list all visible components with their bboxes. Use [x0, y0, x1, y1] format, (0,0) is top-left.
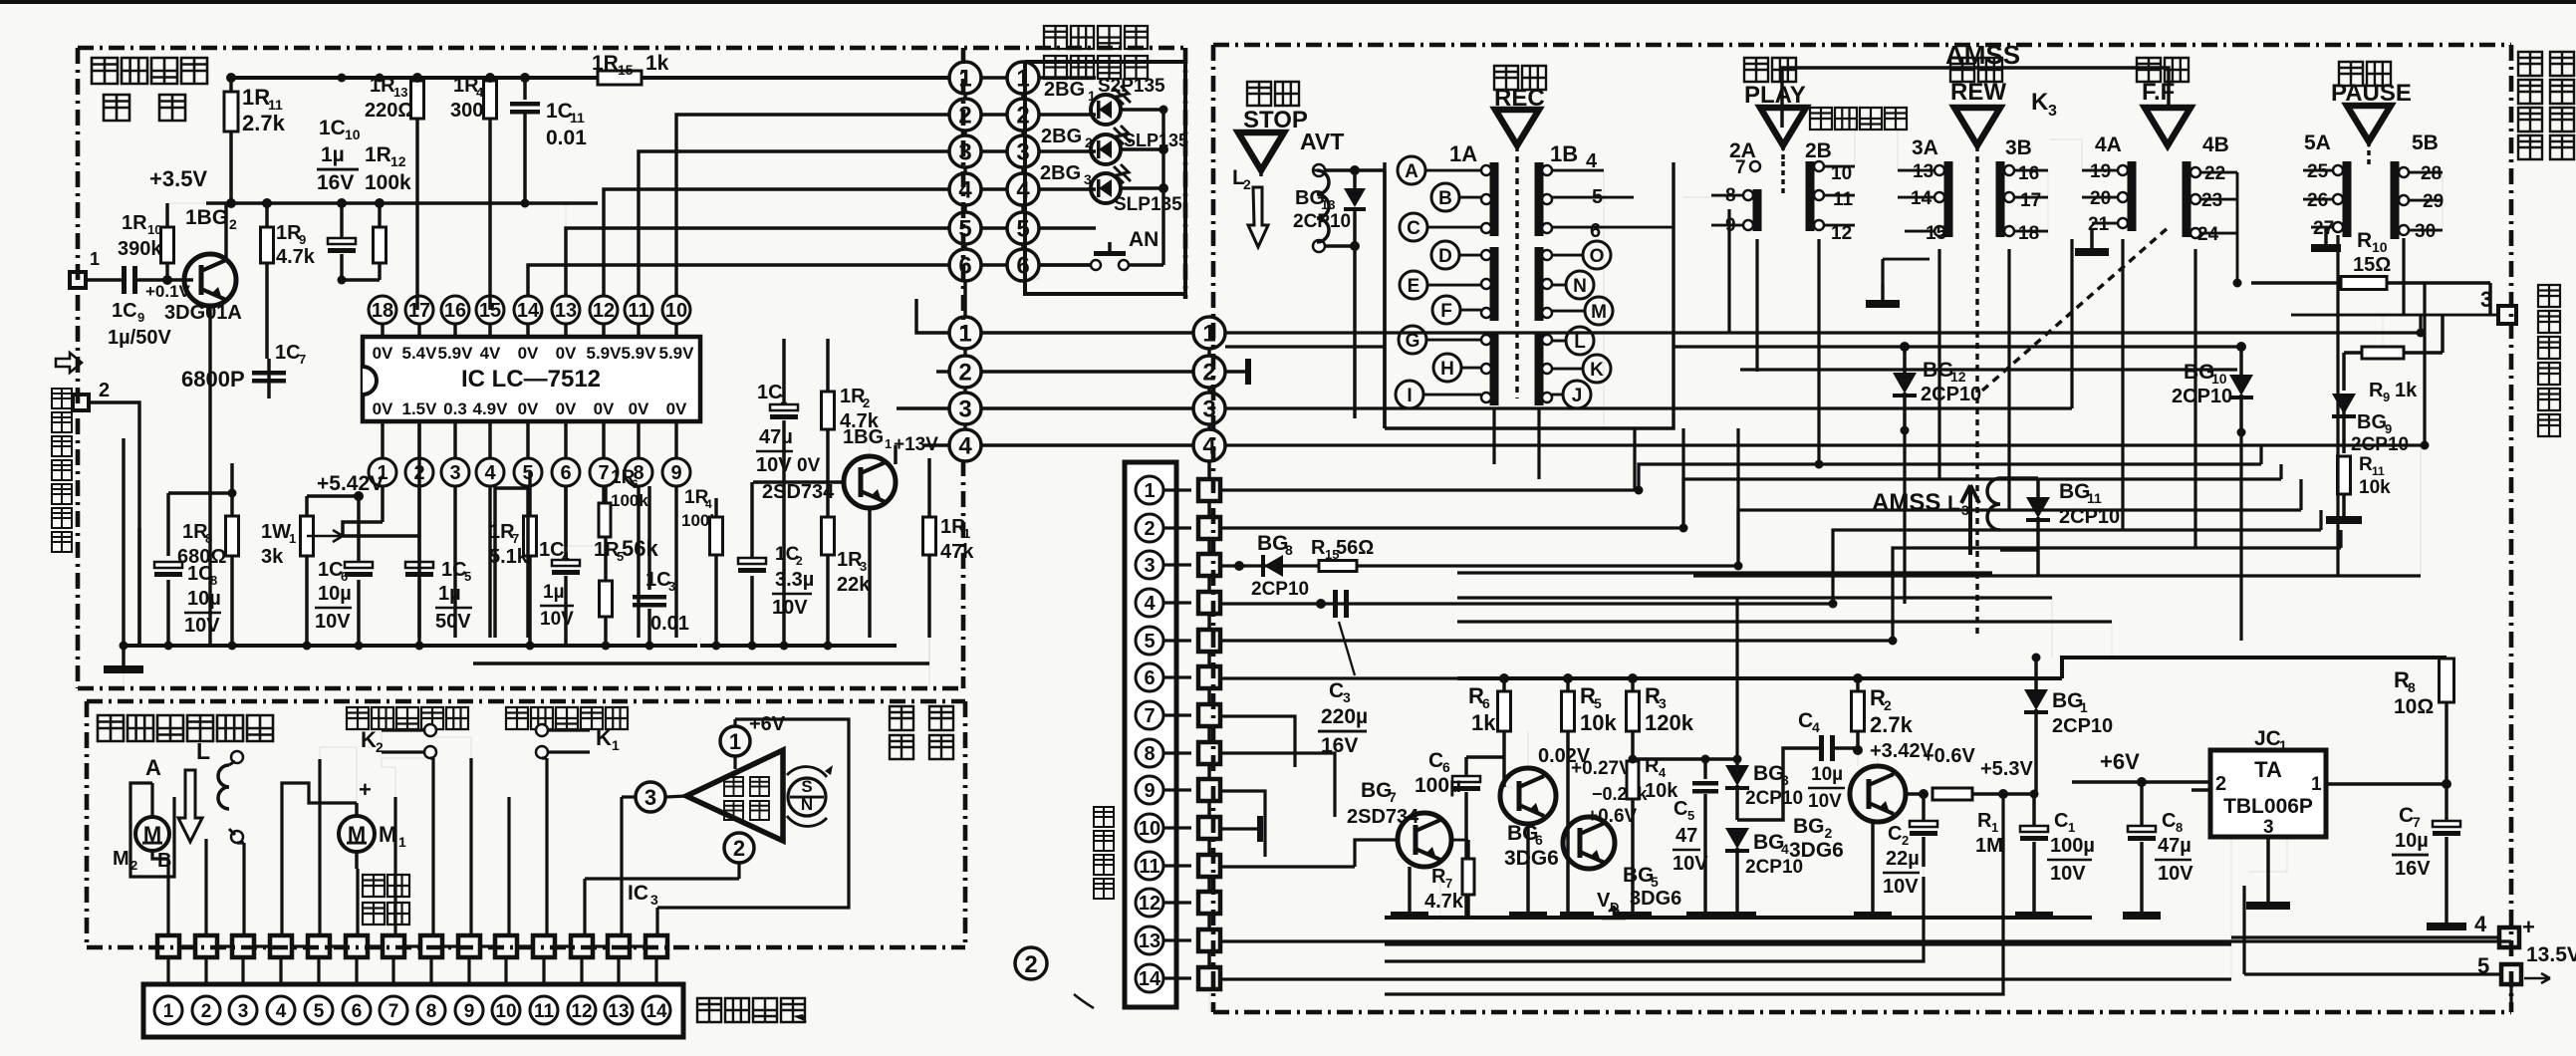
svg-text:L: L	[1947, 492, 1960, 515]
svg-text:16V: 16V	[317, 171, 354, 194]
svg-text:O: O	[1590, 246, 1605, 267]
svg-text:5.4V: 5.4V	[402, 344, 438, 363]
svg-text:2: 2	[1243, 176, 1251, 192]
svg-text:BG: BG	[1623, 864, 1655, 887]
svg-text:4: 4	[1812, 719, 1820, 735]
svg-text:9: 9	[137, 310, 144, 325]
svg-text:0.01: 0.01	[650, 613, 689, 635]
svg-text:4.7k: 4.7k	[1424, 891, 1464, 913]
svg-text:5: 5	[1016, 216, 1029, 243]
svg-text:BG: BG	[1361, 779, 1393, 802]
svg-text:7: 7	[512, 531, 519, 546]
svg-text:2: 2	[1902, 833, 1909, 848]
svg-text:SLP135: SLP135	[1114, 194, 1182, 215]
svg-text:2.7k: 2.7k	[1870, 712, 1914, 737]
svg-text:BG: BG	[1257, 532, 1289, 555]
svg-text:C: C	[1674, 798, 1687, 820]
svg-text:13: 13	[1321, 197, 1335, 212]
svg-text:C: C	[1428, 749, 1443, 772]
svg-text:10: 10	[2211, 371, 2227, 387]
svg-text:6800P: 6800P	[181, 367, 245, 392]
svg-text:8: 8	[210, 573, 217, 588]
svg-text:10k: 10k	[1580, 710, 1617, 735]
svg-text:1: 1	[2279, 737, 2287, 753]
svg-text:0V: 0V	[373, 399, 393, 418]
svg-text:10: 10	[345, 127, 361, 142]
svg-text:14: 14	[645, 1001, 667, 1022]
svg-text:47µ: 47µ	[2158, 835, 2191, 857]
svg-text:1C: 1C	[318, 559, 344, 581]
svg-text:R: R	[2357, 229, 2372, 252]
svg-text:1R: 1R	[122, 212, 147, 234]
svg-text:4B: 4B	[2202, 133, 2229, 156]
svg-text:50V: 50V	[435, 611, 471, 633]
svg-text:1: 1	[398, 834, 406, 850]
svg-text:1: 1	[289, 531, 296, 546]
svg-text:1C: 1C	[275, 342, 301, 364]
svg-text:15: 15	[1926, 223, 1947, 244]
svg-text:2: 2	[1202, 360, 1215, 387]
svg-text:10µ: 10µ	[318, 583, 352, 605]
svg-text:2: 2	[229, 216, 237, 232]
svg-text:1µ: 1µ	[321, 143, 345, 166]
svg-text:10: 10	[1139, 818, 1160, 840]
svg-text:3DG6: 3DG6	[1630, 888, 1681, 910]
svg-text:13: 13	[608, 1001, 629, 1022]
svg-text:3DG01A: 3DG01A	[164, 302, 242, 324]
svg-text:16V: 16V	[1321, 734, 1358, 757]
svg-text:22µ: 22µ	[1886, 848, 1920, 870]
svg-text:22: 22	[2204, 163, 2225, 184]
svg-text:390k: 390k	[118, 238, 162, 260]
svg-text:3DG6: 3DG6	[1504, 847, 1559, 870]
svg-text:BG: BG	[1507, 822, 1539, 845]
svg-text:+0.6V: +0.6V	[1923, 745, 1975, 767]
svg-text:1C: 1C	[757, 382, 783, 403]
svg-text:2CP10: 2CP10	[2052, 715, 2113, 737]
svg-text:2CP10: 2CP10	[1251, 579, 1309, 600]
svg-text:4.9V: 4.9V	[473, 399, 509, 418]
svg-text:S2P135: S2P135	[1098, 76, 1165, 97]
svg-text:56k: 56k	[622, 536, 658, 561]
svg-text:15: 15	[618, 62, 634, 78]
svg-text:1: 1	[729, 729, 741, 754]
svg-text:10V: 10V	[756, 454, 792, 476]
svg-text:3B: 3B	[2005, 136, 2032, 159]
svg-text:+6V: +6V	[749, 713, 786, 735]
svg-text:BG: BG	[2184, 361, 2215, 384]
svg-text:9: 9	[1144, 780, 1155, 802]
svg-text:12: 12	[593, 300, 615, 322]
svg-text:7: 7	[598, 462, 609, 484]
svg-text:10V: 10V	[2158, 863, 2193, 885]
svg-text:16V: 16V	[2395, 858, 2431, 880]
svg-text:220Ω: 220Ω	[365, 100, 413, 122]
svg-text:AN: AN	[1129, 228, 1159, 251]
svg-text:20: 20	[2090, 188, 2111, 209]
svg-text:SLP135: SLP135	[1124, 131, 1188, 150]
svg-text:9: 9	[2383, 390, 2390, 404]
svg-text:47µ: 47µ	[759, 426, 793, 448]
svg-text:AMSS: AMSS	[1872, 489, 1940, 516]
svg-text:R: R	[2359, 454, 2373, 475]
svg-text:TA: TA	[2254, 757, 2282, 782]
svg-text:10V: 10V	[540, 609, 574, 630]
svg-text:11: 11	[1833, 189, 1854, 210]
svg-text:1: 1	[1016, 66, 1029, 93]
svg-text:1C: 1C	[187, 563, 213, 585]
svg-text:8: 8	[1285, 542, 1293, 558]
svg-text:1: 1	[958, 321, 971, 348]
svg-text:C: C	[1888, 823, 1902, 845]
svg-text:1BG: 1BG	[185, 206, 228, 229]
svg-text:6: 6	[1535, 832, 1543, 848]
svg-text:1µ: 1µ	[543, 582, 565, 603]
svg-text:25: 25	[2307, 161, 2329, 182]
svg-text:0V: 0V	[373, 344, 393, 363]
svg-text:100µ: 100µ	[2050, 835, 2095, 857]
svg-text:10V: 10V	[1673, 853, 1708, 875]
svg-text:3: 3	[1084, 171, 1092, 187]
svg-text:4: 4	[705, 497, 712, 511]
svg-text:1µ/50V: 1µ/50V	[108, 327, 171, 349]
svg-text:26: 26	[2307, 190, 2328, 211]
svg-text:13: 13	[555, 300, 577, 322]
svg-text:BG: BG	[2052, 689, 2084, 712]
svg-text:6: 6	[1442, 759, 1450, 775]
svg-text:14: 14	[517, 300, 540, 322]
svg-text:19: 19	[2090, 161, 2111, 182]
svg-text:13: 13	[393, 85, 407, 100]
svg-text:2: 2	[1024, 951, 1037, 978]
svg-text:6: 6	[1482, 695, 1490, 711]
svg-text:I: I	[1407, 386, 1412, 406]
svg-text:4: 4	[1016, 177, 1030, 204]
svg-text:7: 7	[2413, 814, 2421, 830]
svg-text:2B: 2B	[1805, 139, 1832, 162]
svg-text:2CP10: 2CP10	[1293, 211, 1351, 232]
svg-text:A: A	[1405, 161, 1418, 182]
svg-text:6: 6	[958, 253, 971, 280]
svg-text:5: 5	[1687, 808, 1694, 823]
svg-text:6: 6	[560, 462, 571, 484]
svg-text:5.9V: 5.9V	[659, 344, 695, 363]
svg-text:3: 3	[238, 1001, 249, 1022]
svg-text:120k: 120k	[1645, 710, 1694, 735]
svg-text:C: C	[1407, 218, 1420, 239]
svg-text:JC: JC	[2254, 727, 2281, 750]
svg-text:M: M	[113, 848, 129, 870]
svg-text:BG: BG	[1753, 831, 1785, 854]
svg-text:J: J	[1572, 386, 1583, 406]
svg-text:5: 5	[522, 462, 533, 484]
svg-text:10V: 10V	[315, 611, 351, 633]
svg-text:27: 27	[2313, 218, 2334, 239]
svg-text:10: 10	[2372, 239, 2388, 255]
svg-text:2.7k: 2.7k	[242, 111, 286, 135]
svg-text:7: 7	[388, 1001, 399, 1022]
svg-text:10µ: 10µ	[187, 588, 221, 610]
svg-text:47: 47	[1675, 825, 1697, 847]
svg-text:1µ: 1µ	[438, 583, 461, 605]
svg-text:9: 9	[670, 462, 681, 484]
svg-text:0V: 0V	[594, 399, 615, 418]
svg-text:H: H	[1440, 359, 1454, 380]
svg-text:6: 6	[352, 1001, 363, 1022]
svg-text:2: 2	[99, 380, 110, 401]
svg-text:BG: BG	[2059, 480, 2091, 503]
svg-text:1R: 1R	[365, 143, 391, 166]
svg-text:0.01: 0.01	[546, 127, 587, 149]
svg-text:F.F: F.F	[2142, 79, 2175, 106]
svg-text:10V: 10V	[1808, 791, 1842, 812]
svg-text:C: C	[2399, 804, 2414, 827]
svg-text:9: 9	[464, 1001, 475, 1022]
svg-text:1: 1	[2080, 699, 2088, 715]
svg-text:C: C	[1329, 679, 1344, 702]
svg-text:22k: 22k	[837, 574, 871, 596]
svg-text:13: 13	[1913, 161, 1933, 182]
svg-text:24: 24	[2197, 224, 2219, 245]
svg-text:2SD734: 2SD734	[1347, 806, 1419, 828]
svg-text:1: 1	[958, 66, 971, 93]
svg-text:8: 8	[2176, 820, 2183, 835]
svg-text:C: C	[2054, 810, 2068, 832]
svg-text:R: R	[1431, 866, 1446, 888]
svg-text:0V: 0V	[518, 344, 539, 363]
svg-text:14: 14	[1911, 188, 1932, 209]
svg-text:10: 10	[665, 300, 687, 322]
svg-text:0V: 0V	[666, 399, 687, 418]
svg-text:BG: BG	[1753, 762, 1785, 785]
svg-text:100k: 100k	[365, 171, 411, 194]
svg-text:12: 12	[1139, 893, 1160, 915]
svg-text:0V: 0V	[797, 455, 821, 476]
svg-text:10µ: 10µ	[1811, 764, 1843, 785]
svg-text:IC LC—7512: IC LC—7512	[461, 366, 601, 393]
svg-text:2: 2	[1884, 697, 1892, 713]
svg-text:1: 1	[963, 526, 970, 541]
svg-text:R: R	[1311, 537, 1326, 559]
svg-text:1M: 1M	[1975, 835, 2003, 857]
svg-text:47k: 47k	[940, 541, 974, 563]
svg-text:3A: 3A	[1912, 136, 1938, 159]
svg-text:10V: 10V	[2050, 863, 2086, 885]
svg-text:1B: 1B	[1550, 141, 1578, 166]
svg-text:5A: 5A	[2304, 132, 2331, 154]
svg-text:3: 3	[1202, 396, 1215, 423]
svg-text:10: 10	[147, 222, 161, 237]
svg-text:2: 2	[733, 836, 745, 861]
svg-text:0V: 0V	[556, 344, 577, 363]
svg-text:TBL006P: TBL006P	[2223, 795, 2313, 818]
svg-text:4: 4	[276, 1001, 287, 1022]
svg-text:1R: 1R	[242, 85, 270, 110]
svg-text:1: 1	[885, 436, 892, 451]
svg-text:+6V: +6V	[2100, 749, 2140, 774]
svg-text:1W: 1W	[261, 521, 291, 543]
svg-text:4: 4	[1202, 433, 1216, 460]
svg-text:29: 29	[2423, 191, 2444, 212]
svg-text:1C: 1C	[112, 300, 137, 322]
svg-text:14: 14	[1139, 968, 1161, 990]
svg-text:2: 2	[958, 360, 971, 387]
svg-text:220µ: 220µ	[1321, 705, 1368, 728]
svg-text:13: 13	[1139, 930, 1160, 952]
svg-text:6: 6	[1590, 220, 1601, 242]
svg-text:10Ω: 10Ω	[2394, 695, 2434, 718]
svg-text:6: 6	[1144, 667, 1155, 689]
svg-text:8: 8	[205, 531, 212, 546]
svg-text:4A: 4A	[2095, 133, 2122, 156]
svg-text:10: 10	[495, 1001, 516, 1022]
svg-text:1C: 1C	[539, 539, 565, 561]
svg-text:4: 4	[484, 462, 496, 484]
svg-text:12: 12	[571, 1001, 592, 1022]
svg-text:AVT: AVT	[1300, 129, 1344, 154]
svg-text:AMSS: AMSS	[1945, 40, 2020, 70]
svg-text:5: 5	[314, 1001, 325, 1022]
svg-text:2: 2	[1085, 134, 1093, 150]
svg-text:+: +	[359, 777, 372, 802]
svg-text:1: 1	[1088, 88, 1096, 104]
svg-text:2BG: 2BG	[1041, 126, 1082, 147]
svg-text:2: 2	[201, 1001, 212, 1022]
svg-text:1: 1	[1144, 480, 1155, 502]
svg-text:IC: IC	[628, 882, 648, 905]
svg-text:0V: 0V	[629, 399, 649, 418]
svg-text:3DG6: 3DG6	[1789, 839, 1844, 862]
svg-text:3: 3	[1659, 695, 1667, 711]
svg-text:8: 8	[2408, 679, 2416, 695]
svg-text:30: 30	[2415, 221, 2436, 242]
svg-text:11: 11	[2372, 464, 2385, 478]
svg-text:2: 2	[958, 103, 971, 130]
svg-text:10µ: 10µ	[2395, 830, 2429, 852]
svg-text:BG: BG	[2357, 411, 2387, 433]
svg-text:16: 16	[444, 300, 466, 322]
svg-text:23: 23	[2201, 190, 2222, 211]
svg-text:2CP10: 2CP10	[2059, 506, 2120, 528]
svg-text:2: 2	[2215, 773, 2226, 795]
svg-text:3: 3	[1961, 502, 1969, 518]
svg-text:4: 4	[1144, 593, 1156, 615]
svg-text:16: 16	[2018, 163, 2039, 184]
svg-text:+5.42V: +5.42V	[317, 472, 384, 495]
svg-text:0V: 0V	[518, 399, 539, 418]
svg-text:4: 4	[958, 177, 972, 204]
svg-text:10V: 10V	[772, 597, 808, 619]
svg-text:7: 7	[299, 352, 306, 367]
svg-text:1: 1	[163, 1001, 174, 1022]
svg-text:3.3µ: 3.3µ	[775, 569, 814, 591]
svg-text:4.7k: 4.7k	[276, 246, 316, 268]
svg-text:+: +	[2522, 915, 2535, 939]
svg-text:2BG: 2BG	[1040, 162, 1081, 184]
svg-text:10V: 10V	[184, 615, 220, 637]
svg-text:18: 18	[2018, 223, 2039, 244]
svg-text:28: 28	[2421, 163, 2442, 184]
svg-text:+0.27V: +0.27V	[1571, 758, 1632, 779]
svg-text:0V: 0V	[556, 399, 577, 418]
svg-text:1: 1	[1202, 321, 1215, 348]
svg-text:1: 1	[2311, 774, 2322, 795]
svg-text:11: 11	[628, 300, 648, 322]
svg-text:13.5V: 13.5V	[2526, 943, 2576, 966]
svg-text:E: E	[1408, 276, 1420, 297]
svg-text:C: C	[1798, 709, 1813, 732]
svg-text:5: 5	[1594, 695, 1602, 711]
svg-text:REW: REW	[1950, 79, 2006, 106]
svg-text:3: 3	[1343, 689, 1351, 705]
svg-text:9: 9	[299, 232, 306, 247]
svg-text:5.9V: 5.9V	[438, 344, 474, 363]
svg-text:5.9V: 5.9V	[587, 344, 623, 363]
svg-text:17: 17	[408, 300, 430, 322]
svg-text:2: 2	[863, 396, 870, 410]
svg-text:1k: 1k	[1471, 710, 1496, 735]
svg-text:R: R	[2369, 380, 2384, 401]
svg-text:3: 3	[2048, 103, 2057, 120]
svg-text:100µ: 100µ	[1415, 774, 1461, 797]
svg-text:+13V: +13V	[894, 434, 938, 455]
svg-text:1C: 1C	[319, 117, 346, 139]
svg-text:1: 1	[612, 737, 620, 753]
svg-text:K: K	[596, 725, 612, 750]
svg-text:1k: 1k	[2395, 380, 2418, 401]
svg-text:11: 11	[570, 110, 585, 126]
svg-text:L: L	[1574, 332, 1586, 353]
svg-text:3: 3	[1016, 139, 1029, 166]
svg-text:D: D	[1438, 246, 1452, 267]
svg-text:11: 11	[1139, 856, 1159, 878]
svg-text:7: 7	[1735, 157, 1746, 178]
svg-text:5.9V: 5.9V	[622, 344, 657, 363]
svg-text:R: R	[1977, 810, 1992, 832]
svg-text:17: 17	[2020, 190, 2041, 211]
svg-text:7: 7	[1445, 876, 1452, 891]
svg-text:1C: 1C	[546, 100, 573, 123]
svg-text:4: 4	[2474, 912, 2487, 936]
svg-text:8: 8	[1144, 743, 1155, 765]
svg-text:1: 1	[90, 249, 100, 269]
svg-text:B: B	[1438, 188, 1452, 209]
svg-text:10V: 10V	[1883, 876, 1919, 898]
svg-text:K: K	[1590, 360, 1604, 381]
svg-text:3k: 3k	[261, 546, 284, 568]
svg-text:3: 3	[668, 579, 675, 594]
svg-text:3: 3	[958, 396, 971, 423]
svg-text:V: V	[1597, 890, 1611, 912]
svg-text:5: 5	[464, 569, 471, 584]
svg-text:S: S	[801, 777, 812, 796]
svg-text:K: K	[2031, 89, 2049, 116]
svg-text:3: 3	[650, 892, 658, 908]
svg-text:15Ω: 15Ω	[2353, 254, 2391, 276]
svg-text:5: 5	[1144, 631, 1155, 653]
svg-text:11: 11	[534, 1001, 555, 1022]
svg-text:2: 2	[1016, 103, 1029, 130]
svg-text:2CP10: 2CP10	[1745, 788, 1803, 809]
svg-text:A: A	[145, 755, 161, 780]
svg-text:4: 4	[1659, 765, 1667, 780]
svg-text:3: 3	[1144, 555, 1155, 577]
svg-text:1: 1	[1991, 820, 1998, 835]
svg-text:7: 7	[1144, 705, 1155, 727]
svg-text:1A: 1A	[1449, 141, 1477, 166]
svg-text:F: F	[1440, 301, 1452, 322]
svg-text:11: 11	[2087, 490, 2102, 506]
